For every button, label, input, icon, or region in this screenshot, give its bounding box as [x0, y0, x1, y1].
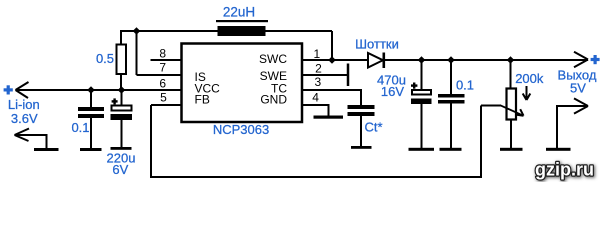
svg-text:6V: 6V: [112, 162, 128, 177]
svg-text:4: 4: [312, 91, 319, 105]
svg-text:Li-ion: Li-ion: [8, 97, 40, 112]
svg-text:5V: 5V: [570, 80, 586, 95]
svg-text:0.1: 0.1: [71, 120, 89, 135]
svg-text:Шоттки: Шоттки: [355, 37, 399, 52]
svg-text:0.1: 0.1: [456, 78, 474, 93]
svg-text:gzip.ru: gzip.ru: [535, 160, 594, 180]
svg-text:1: 1: [313, 47, 320, 61]
svg-text:2: 2: [315, 61, 322, 75]
svg-text:GND: GND: [260, 92, 287, 106]
svg-text:NCP3063: NCP3063: [213, 122, 269, 137]
svg-text:SWC: SWC: [259, 52, 287, 66]
svg-text:5: 5: [160, 91, 167, 105]
svg-text:Ct*: Ct*: [364, 120, 382, 135]
svg-text:200k: 200k: [515, 71, 544, 86]
svg-text:3.6V: 3.6V: [11, 111, 38, 126]
svg-text:8: 8: [159, 46, 166, 60]
svg-text:0.5: 0.5: [96, 51, 114, 66]
svg-text:16V: 16V: [381, 84, 404, 99]
svg-text:7: 7: [159, 61, 166, 75]
svg-text:22uH: 22uH: [223, 5, 255, 20]
svg-text:6: 6: [159, 76, 166, 90]
svg-text:3: 3: [314, 75, 321, 89]
svg-text:FB: FB: [195, 93, 210, 107]
